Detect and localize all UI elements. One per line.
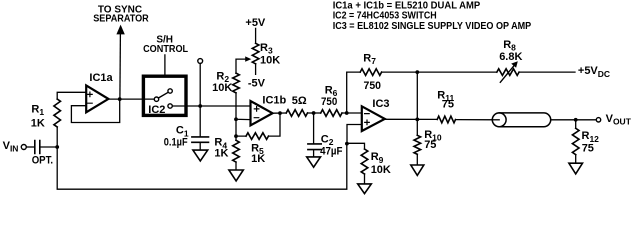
- resistor R5: [236, 113, 280, 136]
- wire: [308, 112, 321, 114]
- potentiometer R3 wiper arrow: [245, 56, 251, 61]
- wire IC1a feedback: [71, 99, 119, 122]
- svg-text:CONTROL: CONTROL: [143, 44, 188, 55]
- svg-text:750: 750: [321, 96, 337, 108]
- arrow R8 variable: [500, 65, 515, 83]
- wire: [41, 146, 57, 148]
- node R5 tap junction: [234, 134, 238, 138]
- svg-text:75: 75: [442, 98, 454, 110]
- node C2 junction: [312, 111, 316, 115]
- wire IC1a output: [108, 98, 154, 100]
- capacitor OPT.: [35, 141, 40, 154]
- wire IC3 output: [385, 118, 437, 120]
- svg-text:750: 750: [364, 80, 382, 92]
- coax cable: [492, 113, 506, 127]
- svg-text:SEPARATOR: SEPARATOR: [93, 13, 149, 24]
- svg-text:VOUT: VOUT: [606, 113, 632, 127]
- svg-text:5Ω: 5Ω: [292, 95, 307, 107]
- svg-text:IC3: IC3: [372, 98, 389, 110]
- wire bottom rail: [57, 144, 347, 189]
- op-amp IC3: [362, 106, 385, 131]
- svg-text:-5V: -5V: [248, 77, 266, 89]
- wire hold node vertical: [199, 63, 201, 136]
- ground below R4: [229, 170, 243, 181]
- resistor R6: [321, 110, 342, 117]
- svg-text:6.8K: 6.8K: [499, 51, 522, 63]
- op-amp IC1a: [86, 85, 108, 112]
- svg-text:+5V: +5V: [245, 17, 266, 29]
- svg-text:10K: 10K: [212, 82, 232, 94]
- svg-text:1K: 1K: [214, 147, 228, 159]
- ground below R10: [411, 165, 424, 175]
- op-amp IC1b: [251, 101, 273, 125]
- resistor R11: [437, 116, 455, 123]
- resistor R4: [233, 140, 240, 162]
- svg-text:1K: 1K: [31, 118, 45, 130]
- terminal above hold node: [198, 59, 203, 64]
- svg-text:IC3 = EL8102 SINGLE SUPPLY VID: IC3 = EL8102 SINGLE SUPPLY VIDEO OP AMP: [333, 21, 532, 32]
- ground below C2: [307, 157, 321, 167]
- wire IC1b output: [273, 112, 287, 114]
- svg-text:IC1a: IC1a: [89, 72, 113, 84]
- node VIN input terminal: [21, 145, 26, 150]
- wire R7 node to output node: [416, 72, 418, 135]
- ground below C1: [193, 150, 208, 161]
- resistor R2: [236, 59, 248, 119]
- svg-text:0.1µF: 0.1µF: [164, 137, 188, 149]
- svg-text:IC2: IC2: [148, 104, 165, 116]
- svg-text:+5VDC: +5VDC: [578, 65, 610, 79]
- capacitor C2: [313, 113, 315, 143]
- wire: [26, 146, 34, 148]
- svg-text:IC2 = 74HC4053 SWITCH: IC2 = 74HC4053 SWITCH: [333, 10, 437, 21]
- ground below R12: [569, 163, 583, 174]
- resistor R1: [57, 92, 86, 147]
- resistor R8: [417, 71, 575, 73]
- arrow to sync separator: [116, 25, 124, 35]
- node R7 junction: [345, 111, 349, 115]
- node R7/R8 junction: [415, 70, 419, 74]
- wire to sync separator: [119, 34, 122, 100]
- wire to coax: [456, 119, 500, 121]
- svg-text:75: 75: [582, 143, 594, 155]
- ground below R9: [358, 184, 372, 194]
- resistor 5ohm: [286, 110, 307, 117]
- svg-text:VIN: VIN: [3, 140, 19, 154]
- svg-text:R1: R1: [31, 103, 44, 117]
- svg-text:10K: 10K: [371, 164, 391, 176]
- switch pole: [154, 97, 158, 101]
- potentiometer R3: [255, 28, 257, 74]
- svg-text:IC1b: IC1b: [262, 94, 286, 106]
- wire IC1b minus: [236, 119, 251, 140]
- node A junction: [55, 145, 59, 149]
- svg-text:1K: 1K: [251, 153, 265, 165]
- svg-text:47µF: 47µF: [320, 146, 343, 158]
- wire coax to VOUT: [551, 119, 597, 121]
- node hold junction: [198, 104, 202, 108]
- resistor R9: [347, 143, 365, 183]
- capacitor C1: [192, 137, 209, 142]
- switch throw upper: [168, 89, 172, 93]
- node IC1b output junction: [278, 111, 282, 115]
- node IC1b minus junction: [234, 117, 238, 121]
- wire IC3 plus input: [347, 125, 362, 144]
- node R12 junction: [574, 118, 578, 122]
- node IC1a output junction: [118, 97, 122, 101]
- node VOUT terminal: [596, 118, 600, 122]
- node IC3 output junction: [415, 118, 419, 122]
- wire switch output to IC1b: [172, 105, 250, 107]
- svg-text:R9: R9: [371, 151, 384, 165]
- node IC3 plus junction: [345, 142, 349, 146]
- svg-text:OPT.: OPT.: [32, 155, 53, 167]
- svg-text:75: 75: [424, 139, 436, 151]
- resistor R7 feedback: [347, 72, 418, 113]
- resistor R10: [414, 135, 421, 154]
- svg-text:R7: R7: [363, 53, 376, 67]
- switch IC2 box: [143, 76, 186, 115]
- switch arm: [158, 92, 168, 98]
- svg-text:10K: 10K: [260, 54, 280, 66]
- resistor R12: [575, 120, 577, 163]
- wire S/H control: [164, 55, 166, 75]
- switch throw lower: [168, 104, 172, 108]
- wire to IC3 minus: [342, 112, 362, 114]
